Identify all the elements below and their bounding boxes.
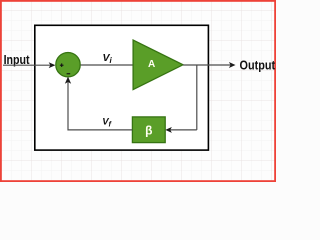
wire summing to amplifier [81, 64, 133, 66]
svg-text:Output: Output [240, 59, 276, 73]
wire output [183, 63, 235, 68]
system boundary box [35, 25, 209, 150]
wire feedback into beta [166, 128, 197, 133]
wire beta to summing junction [66, 77, 133, 129]
wire feedback drop [196, 65, 198, 130]
svg-text:β: β [145, 123, 152, 137]
wire input [3, 63, 55, 68]
svg-text:A: A [148, 59, 155, 70]
feedback block β [132, 117, 165, 143]
summing junction [56, 52, 80, 76]
op-amp A (amplifier block) [133, 40, 183, 90]
